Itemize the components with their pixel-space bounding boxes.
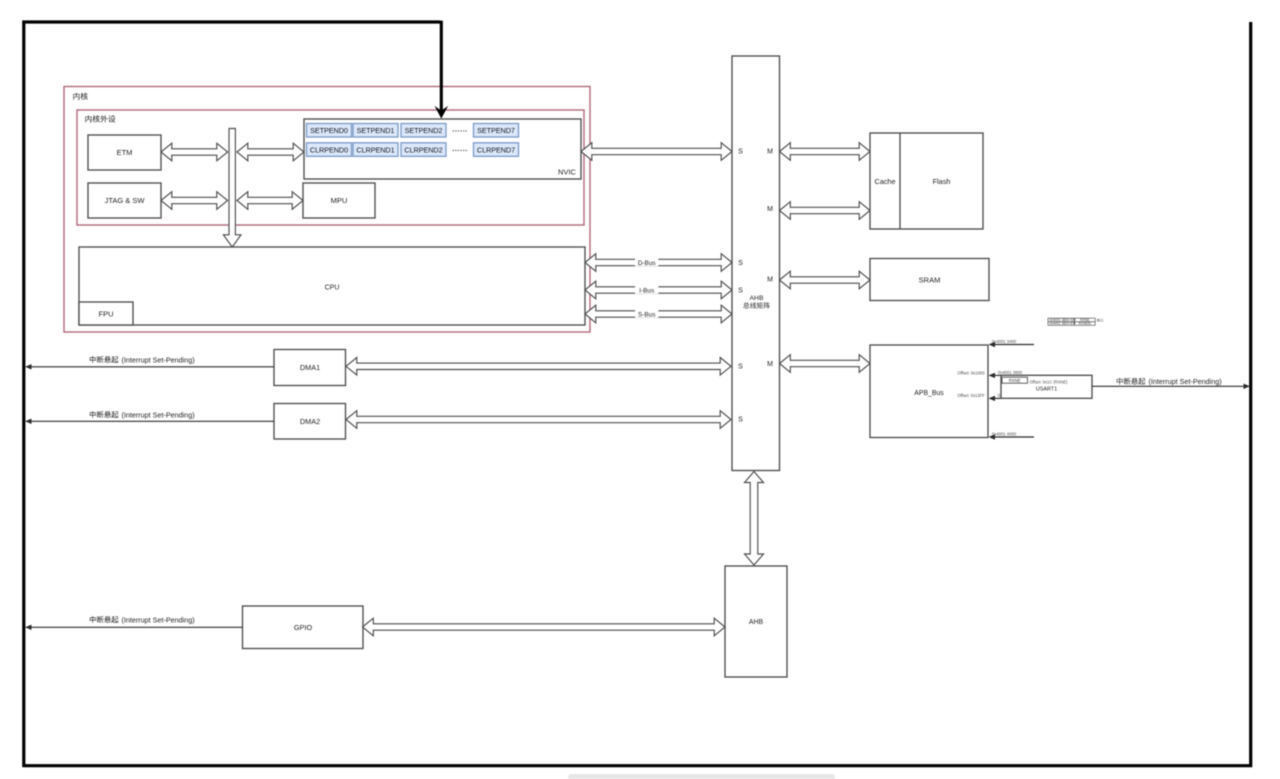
- svg-text:M: M: [767, 361, 773, 368]
- block CPU: [79, 247, 585, 325]
- svg-text:......: ......: [452, 144, 468, 153]
- svg-text:CLRPEND0: CLRPEND0: [310, 145, 348, 154]
- svg-text:M: M: [767, 149, 773, 156]
- svg-text:(Interrupt Set-Pending): (Interrupt Set-Pending): [122, 615, 195, 624]
- block JTAG & SW: [88, 183, 161, 218]
- register CLRPEND7: [474, 143, 519, 157]
- svg-text:MPU: MPU: [331, 196, 348, 205]
- svg-text:CLRPEND7: CLRPEND7: [477, 145, 515, 154]
- svg-text:0x4001 3800: 0x4001 3800: [998, 370, 1023, 375]
- svg-text:(Interrupt Set-Pending): (Interrupt Set-Pending): [122, 410, 195, 419]
- arrow matrix - AHB: [745, 472, 764, 566]
- svg-text:S: S: [738, 260, 743, 267]
- block AHB: [725, 566, 787, 677]
- group box 内核外设 (Core peripherals): [77, 110, 584, 225]
- svg-text:0x4001 3400: 0x4001 3400: [992, 339, 1017, 344]
- svg-text:(Interrupt Set-Pending): (Interrupt Set-Pending): [1149, 377, 1222, 386]
- svg-text:NVIC: NVIC: [558, 168, 577, 177]
- svg-text:FPU: FPU: [99, 310, 114, 319]
- register SETPEND2: [401, 124, 446, 138]
- svg-text:SETPEND0: SETPEND0: [310, 126, 348, 135]
- arrow DMA2 - matrix: [346, 411, 731, 429]
- svg-text:......: ......: [452, 125, 468, 134]
- svg-text:(Interrupt Set-Pending): (Interrupt Set-Pending): [122, 355, 195, 364]
- bus bar arrow into CPU: [223, 129, 241, 248]
- svg-text:SETPEND7: SETPEND7: [477, 126, 515, 135]
- svg-text:CLRPEND2: CLRPEND2: [404, 145, 442, 154]
- label 内核外设: [85, 115, 115, 122]
- arrow DMA1 - matrix: [346, 358, 731, 376]
- register CLRPEND2: [401, 143, 446, 157]
- block ETM: [88, 135, 161, 170]
- svg-text:Flash: Flash: [933, 177, 951, 186]
- svg-text:AHB: AHB: [750, 295, 764, 302]
- arrow D-Bus: [585, 254, 732, 272]
- block USART1: [1001, 375, 1092, 398]
- svg-text:CLRPEND1: CLRPEND1: [356, 145, 394, 154]
- block Cache/Flash: [870, 133, 983, 229]
- svg-text:S: S: [738, 364, 743, 371]
- arrow matrix - Cache/Flash (I-Code): [780, 143, 871, 161]
- register RXNE (USART1 status bit): [1002, 377, 1028, 383]
- block AHB bus matrix: [732, 56, 780, 471]
- wire: top feedback drop into NVIC: [440, 21, 443, 112]
- svg-text:Offset: 0x13FF: Offset: 0x13FF: [957, 393, 985, 398]
- wire USART1 interrupt set-pending: [1092, 385, 1244, 387]
- arrow matrix - APB_Bus: [780, 355, 871, 373]
- mini table USART registers: [1048, 318, 1095, 325]
- svg-text:Offset: 0x1C (RXNE): Offset: 0x1C (RXNE): [1030, 380, 1069, 385]
- register SETPEND7: [474, 124, 519, 138]
- wire DMA1 interrupt: [31, 366, 274, 368]
- svg-text:I-Bus: I-Bus: [639, 288, 654, 295]
- svg-text:RXNE: RXNE: [1009, 378, 1021, 383]
- register SETPEND0: [307, 124, 352, 138]
- block GPIO: [243, 606, 364, 649]
- svg-text:CPU: CPU: [325, 285, 340, 292]
- svg-text:GPIO: GPIO: [294, 623, 313, 632]
- register SETPEND1: [353, 124, 398, 138]
- arrow NVIC - matrix: [581, 143, 732, 161]
- label 中断悬起 (Interrupt Set-Pending) right: [1117, 378, 1146, 385]
- label 中断悬起 (Interrupt Set-Pending) DMA1: [90, 356, 119, 363]
- decorative bottom bar: [568, 774, 835, 779]
- svg-text:ETM: ETM: [117, 148, 133, 157]
- svg-text:S: S: [738, 149, 743, 156]
- register CLRPEND1: [353, 143, 398, 157]
- svg-text:JTAG & SW: JTAG & SW: [105, 196, 146, 205]
- svg-text:APB_Bus: APB_Bus: [914, 390, 944, 397]
- svg-text:SETPEND1: SETPEND1: [357, 126, 395, 135]
- block DMA2: [274, 404, 346, 440]
- wire APB tap USART1 top: [995, 374, 1003, 376]
- wire APB tap USART1 bottom: [995, 397, 1003, 399]
- svg-text:M: M: [767, 277, 773, 284]
- svg-text:AHB: AHB: [749, 619, 764, 626]
- svg-text:USART1: USART1: [1036, 387, 1057, 393]
- block FPU: [79, 302, 133, 325]
- svg-text:D-Bus: D-Bus: [638, 260, 656, 267]
- svg-text:Offset: 0x1000: Offset: 0x1000: [957, 370, 985, 375]
- arrow bus bar - NVIC: [237, 143, 304, 161]
- block DMA1: [274, 350, 346, 386]
- label 内核: [73, 93, 88, 100]
- svg-text:S: S: [738, 288, 743, 295]
- svg-text:S: S: [738, 417, 743, 424]
- svg-text:S-Bus: S-Bus: [638, 312, 655, 319]
- block SRAM: [870, 259, 989, 301]
- svg-text:Cache: Cache: [874, 177, 895, 186]
- svg-text:0x4001 3824 IER: 0x4001 3824 IER: [1050, 322, 1077, 326]
- svg-text:DMA1: DMA1: [300, 363, 320, 372]
- svg-text:DMA2: DMA2: [300, 417, 320, 426]
- wire APB tap 0x4001 4000: [995, 436, 1035, 438]
- block MPU: [303, 183, 375, 218]
- wire GPIO interrupt: [31, 626, 243, 628]
- arrow I-Bus: [585, 281, 732, 299]
- arrow bus bar - MPU: [237, 192, 303, 210]
- group box 内核 (Core): [64, 87, 590, 333]
- svg-text:SETPEND2: SETPEND2: [405, 126, 443, 135]
- register CLRPEND0: [307, 143, 352, 157]
- arrow JTAG - bus bar: [161, 192, 228, 210]
- block APB_Bus: [870, 345, 988, 438]
- svg-text:RXNEIE: RXNEIE: [1078, 322, 1091, 326]
- label 中断悬起 (Interrupt Set-Pending) GPIO: [90, 616, 119, 623]
- label 中断悬起 (Interrupt Set-Pending) DMA2: [90, 411, 119, 418]
- arrow matrix - SRAM: [780, 271, 871, 289]
- wire APB tap 0x4001 3400: [995, 344, 1035, 346]
- block NVIC: [304, 119, 581, 179]
- wire DMA2 interrupt: [31, 420, 274, 422]
- svg-text:M: M: [767, 206, 773, 213]
- arrow ETM - bus bar: [161, 143, 228, 161]
- arrow GPIO - AHB: [363, 618, 726, 636]
- arrow matrix - Cache/Flash (D-Code): [780, 202, 871, 220]
- svg-text:0x4001 4000: 0x4001 4000: [992, 432, 1017, 437]
- svg-text:SRAM: SRAM: [919, 276, 941, 285]
- arrow S-Bus: [585, 305, 732, 323]
